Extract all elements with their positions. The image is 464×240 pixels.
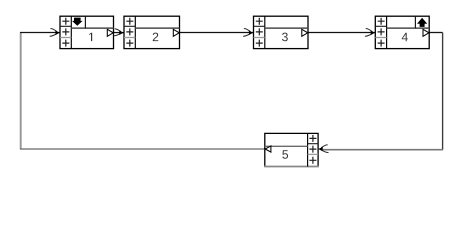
block 4 black up-arrow icon <box>417 18 427 27</box>
block 2 expand button + (middle) <box>126 28 133 35</box>
wire: feedback left vertical (node loop) <box>20 33 22 150</box>
block 3 expand button + (top) <box>256 18 263 25</box>
wire: block 2 to block 3 <box>180 32 254 34</box>
block 1 input arrowhead <box>50 29 60 37</box>
block 1 label <box>89 33 92 41</box>
block 1 black down-arrow icon <box>72 18 83 26</box>
block 5 (mirrored) <box>264 133 319 166</box>
block 3 label <box>282 33 288 42</box>
block 5 expand button + (middle) <box>309 146 316 153</box>
block 2 input arrowhead <box>114 29 124 36</box>
block 1 <box>60 16 114 48</box>
block 2 <box>124 16 180 48</box>
wire: right rail vertical <box>442 33 444 150</box>
block 3 expand button + (middle) <box>256 28 263 35</box>
block 4 expand button + (middle) <box>378 28 385 35</box>
block 4 label <box>402 33 408 41</box>
block 2 expand button + (bottom) <box>126 40 133 47</box>
block 1 expand button + (bottom) <box>62 40 69 47</box>
block 1 output port triangle <box>107 29 113 36</box>
block 3 expand button + (bottom) <box>256 40 263 47</box>
wire: block 1 to block 2 <box>114 32 124 34</box>
block 3 input arrowhead <box>244 29 254 37</box>
block 5 expand button + (top) <box>309 135 316 142</box>
block 4 output port triangle <box>423 29 429 36</box>
block 2 expand button + (top) <box>126 18 133 25</box>
block 4 expand button + (top) <box>378 18 385 25</box>
block 4 expand button + (bottom) <box>378 40 385 47</box>
wire: bottom-left horizontal from block 5 output to left rail <box>20 148 265 150</box>
block 2 output port triangle <box>173 29 179 36</box>
block 1 expand button + (middle) <box>62 28 69 35</box>
block 5 label <box>282 150 288 159</box>
block 4 <box>375 16 429 48</box>
block 5 expand button + (bottom) <box>309 157 316 164</box>
block 1 expand button + (top) <box>62 18 69 25</box>
block 5 input arrowhead (points left) <box>318 145 328 153</box>
block 3 <box>254 16 309 48</box>
block 5 output port triangle (points left) <box>265 146 271 152</box>
wire: block 3 to block 4 <box>308 32 375 34</box>
wire: top-left horizontal into block 1 <box>20 32 60 34</box>
block 3 output port triangle <box>302 29 308 36</box>
block 4 input arrowhead <box>365 29 375 37</box>
wire: bottom horizontal into block 5 <box>321 149 443 151</box>
block 2 label <box>153 33 159 42</box>
wire: block 4 output to right rail <box>429 32 442 34</box>
